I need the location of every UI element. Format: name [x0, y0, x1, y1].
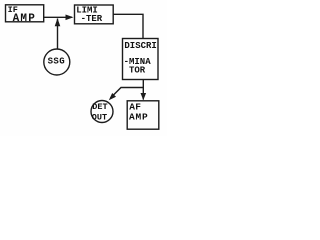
svg-text:-TER: -TER: [81, 14, 103, 24]
svg-text:AMP: AMP: [13, 13, 36, 25]
arrowhead up at junction: [55, 18, 61, 26]
svg-text:DET: DET: [92, 102, 107, 112]
arrowhead into DET OUT: [109, 93, 116, 100]
svg-text:TOR: TOR: [129, 65, 146, 75]
svg-text:DISCRI: DISCRI: [124, 41, 156, 51]
svg-text:OUT: OUT: [92, 112, 107, 122]
svg-text:SSG: SSG: [48, 56, 65, 66]
detector output node DET OUT: [91, 101, 113, 123]
wire SSG to junction: [57, 19, 59, 49]
wire DISCRIMINATOR to AF AMP: [142, 80, 144, 100]
signal generator SSG: [44, 49, 70, 75]
arrowhead into AF AMP: [141, 93, 147, 100]
AF amplifier block U4: [127, 101, 159, 129]
wire branch to DET OUT: [111, 88, 144, 99]
svg-text:AMP: AMP: [129, 112, 149, 123]
limiter block U2: [75, 5, 114, 24]
arrowhead into LIMITER: [66, 15, 74, 21]
wire IF AMP to LIMITER: [44, 16, 72, 18]
discriminator block U3: [123, 39, 159, 80]
IF amplifier block U1: [6, 5, 44, 25]
wire LIMITER to DISCRIMINATOR: [113, 14, 143, 38]
